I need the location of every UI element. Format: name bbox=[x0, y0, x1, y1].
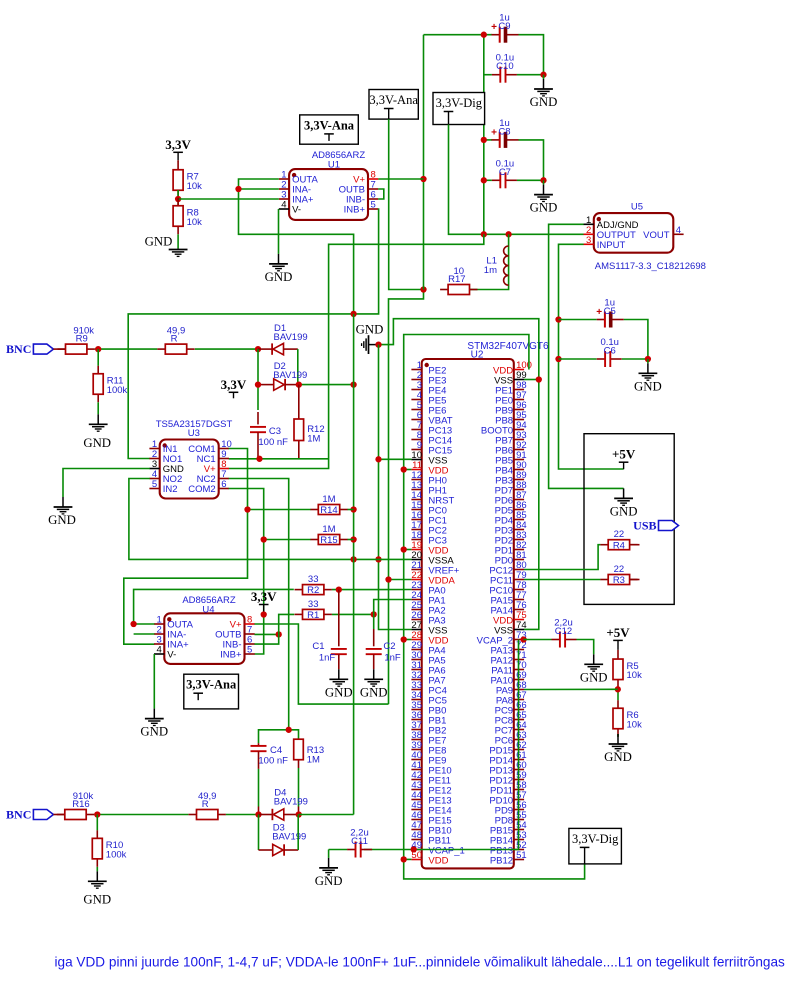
wire clamp left link bbox=[257, 349, 259, 410]
ground (left-pointing, VSS rail) bbox=[356, 323, 384, 354]
wire +5V to R5 bbox=[617, 650, 619, 651]
node VSS10 junction bbox=[375, 456, 381, 462]
wire D3 cathode bbox=[284, 849, 298, 851]
resistor R7 bbox=[173, 162, 202, 199]
svg-text:22: 22 bbox=[614, 529, 625, 540]
U3 labels bbox=[156, 419, 233, 439]
svg-text:3,3V: 3,3V bbox=[221, 377, 247, 392]
regulator U5 bbox=[594, 213, 674, 253]
node VDD pin19 bbox=[401, 546, 407, 552]
wire U5 ADJ/GND to USB-box GND bbox=[549, 224, 624, 488]
svg-text:GND: GND bbox=[356, 323, 384, 337]
node C6 left junction bbox=[555, 356, 561, 362]
svg-text:R15: R15 bbox=[320, 535, 337, 546]
wire U1 V+ to rail bbox=[378, 178, 423, 180]
svg-text:+5V: +5V bbox=[606, 625, 630, 640]
wire D3 anode bbox=[259, 849, 273, 851]
wire R7-R8 junction bbox=[177, 190, 179, 206]
wire Ana rail jog bbox=[389, 290, 424, 705]
wire D1 anode lead bbox=[284, 348, 298, 350]
wire U3 GND pin3 bbox=[63, 469, 150, 498]
svg-text:iga VDD pinni juurde 100nF, 1-: iga VDD pinni juurde 100nF, 1-4,7 uF; VD… bbox=[55, 955, 786, 970]
wire R8 to GND bbox=[177, 234, 179, 248]
wire U4 V- down bbox=[153, 654, 155, 709]
resistor R12 bbox=[294, 385, 325, 459]
wire C5 left lead bbox=[559, 319, 597, 321]
capacitor C5 bbox=[596, 298, 623, 328]
wire D1 cathode lead bbox=[258, 348, 272, 350]
node U4 pin1 junction bbox=[130, 621, 136, 627]
capacitor C10 bbox=[492, 53, 517, 83]
node R17 junction bbox=[420, 286, 426, 292]
svg-text:C6: C6 bbox=[604, 346, 616, 357]
wire C6 left bbox=[559, 358, 597, 360]
wire C11 row bbox=[329, 849, 348, 851]
node U4 OUTB junction bbox=[276, 631, 282, 637]
svg-text:GND: GND bbox=[265, 270, 293, 284]
connector USB bbox=[633, 519, 678, 533]
ground at C6 bbox=[634, 359, 662, 393]
wire C4/R13 top bbox=[259, 730, 289, 743]
capacitor C1 bbox=[312, 590, 346, 670]
svg-text:U4: U4 bbox=[202, 604, 214, 615]
node GND-left junction bbox=[375, 341, 381, 347]
wire U1 V- to ground bbox=[278, 209, 280, 254]
wire C2 node to PA1 bbox=[374, 600, 412, 630]
svg-text:R1: R1 bbox=[307, 610, 319, 621]
wire R9 to 49.9R bbox=[95, 348, 157, 350]
node R1/C2 junction bbox=[371, 611, 377, 617]
wire U1 INB+ down bbox=[128, 209, 378, 459]
svg-text:V-: V- bbox=[292, 205, 301, 216]
svg-text:51: 51 bbox=[516, 850, 527, 861]
node R9/R11 junction bbox=[95, 346, 101, 352]
svg-text:4: 4 bbox=[157, 645, 162, 656]
wire U1 OUTA feedback bbox=[239, 179, 354, 314]
svg-text:10k: 10k bbox=[187, 181, 203, 192]
U2 left pins 1-50 bbox=[411, 360, 464, 867]
svg-text:GND: GND bbox=[610, 504, 638, 518]
power flag 3,3V-Ana (boxed, mid) bbox=[369, 90, 418, 120]
svg-text:GND: GND bbox=[530, 201, 558, 215]
svg-text:C4: C4 bbox=[270, 745, 282, 756]
svg-text:BNC: BNC bbox=[6, 808, 31, 822]
U4 pins bbox=[154, 615, 255, 661]
wire C9 right to C10 right bbox=[518, 35, 543, 75]
power flag 3,3V-Ana (boxed, left) bbox=[300, 115, 359, 144]
note text bbox=[55, 955, 786, 970]
wire C6 right bbox=[622, 358, 648, 360]
wire C8 left bbox=[484, 139, 492, 141]
wire divider to U1 INA+ bbox=[178, 198, 279, 200]
svg-text:R3: R3 bbox=[613, 575, 625, 586]
svg-text:GND: GND bbox=[604, 750, 632, 764]
resistor R3 bbox=[600, 564, 637, 586]
svg-text:BNC: BNC bbox=[6, 342, 31, 356]
resistor R11 bbox=[93, 366, 127, 403]
wire 49.9R to D1 bbox=[195, 348, 258, 350]
svg-text:100k: 100k bbox=[106, 849, 127, 860]
svg-text:C12: C12 bbox=[555, 626, 572, 637]
ground at U4 V- bbox=[140, 709, 168, 739]
svg-text:3: 3 bbox=[586, 235, 591, 246]
svg-text:IN2: IN2 bbox=[163, 484, 178, 495]
wire C9/C10 left riser bbox=[483, 35, 485, 235]
wire U3 COM2 to U4 INB+ bbox=[229, 489, 264, 655]
svg-text:33: 33 bbox=[308, 599, 319, 610]
wire PC11 to R3 bbox=[524, 579, 600, 581]
wire D4 anode lead bbox=[284, 814, 299, 816]
power flag 3,3V near D2 bbox=[221, 377, 247, 399]
wire R13 top bbox=[289, 730, 299, 739]
wire C10 right bbox=[517, 74, 544, 76]
wire VDD pin28 bbox=[404, 639, 412, 641]
svg-text:6: 6 bbox=[221, 479, 226, 490]
node VDDA junction bbox=[385, 576, 391, 582]
resistor R17 bbox=[440, 266, 477, 295]
svg-text:+5V: +5V bbox=[612, 447, 636, 462]
wire R11 to GND bbox=[97, 402, 99, 414]
svg-text:R16: R16 bbox=[72, 799, 89, 810]
wire D2 cathode row bbox=[299, 384, 354, 386]
node R16/R10 junction bbox=[94, 811, 100, 817]
svg-text:1nF: 1nF bbox=[384, 652, 401, 663]
node VCAP_1 junction bbox=[411, 846, 417, 852]
node U1 V+ junction bbox=[420, 176, 426, 182]
wire R14 right bbox=[348, 509, 354, 511]
svg-text:3,3V-Dig: 3,3V-Dig bbox=[572, 832, 619, 846]
diode D3 bbox=[272, 823, 306, 856]
ground at R11 bbox=[83, 414, 111, 450]
node VDD pin28 bbox=[401, 636, 407, 642]
svg-text:10k: 10k bbox=[627, 719, 643, 730]
svg-text:R2: R2 bbox=[307, 585, 319, 596]
svg-text:GND: GND bbox=[48, 513, 76, 527]
wire VDD pin19 bbox=[404, 549, 412, 551]
svg-text:+: + bbox=[596, 307, 602, 318]
wire BNC1 to R9 bbox=[53, 348, 65, 350]
svg-text:VDD: VDD bbox=[428, 856, 448, 867]
svg-text:GND: GND bbox=[325, 685, 353, 699]
svg-text:BAV199: BAV199 bbox=[273, 370, 307, 381]
wire U5 INPUT +5V riser bbox=[559, 244, 624, 469]
node VSSA GND junction bbox=[375, 556, 381, 562]
node Dig/C-riser junction bbox=[481, 231, 487, 237]
svg-text:GND: GND bbox=[140, 725, 168, 739]
svg-text:U5: U5 bbox=[631, 202, 643, 213]
svg-text:33: 33 bbox=[308, 574, 319, 585]
op-amp U1 bbox=[289, 169, 368, 220]
svg-text:GND: GND bbox=[315, 874, 343, 888]
svg-text:INB+: INB+ bbox=[220, 650, 242, 661]
svg-text:3,3V-Dig: 3,3V-Dig bbox=[436, 96, 483, 110]
wire VSS pin10 bbox=[379, 458, 412, 460]
wire mid rail bbox=[353, 314, 355, 815]
svg-text:C9: C9 bbox=[498, 21, 510, 32]
node R15 right junction bbox=[350, 536, 356, 542]
svg-text:INB+: INB+ bbox=[344, 205, 366, 216]
ground at R10 bbox=[83, 871, 111, 906]
node clamp bottom left junction bbox=[255, 811, 261, 817]
svg-text:C10: C10 bbox=[496, 61, 513, 72]
svg-text:C11: C11 bbox=[351, 836, 368, 847]
svg-text:GND: GND bbox=[634, 379, 662, 393]
capacitor C2 bbox=[366, 629, 401, 669]
svg-text:+: + bbox=[491, 22, 497, 33]
capacitor C4 bbox=[251, 743, 289, 814]
node C8 left junction bbox=[481, 137, 487, 143]
svg-text:1nF: 1nF bbox=[319, 652, 336, 663]
svg-text:+: + bbox=[491, 127, 497, 138]
capacitor C3 bbox=[250, 412, 288, 459]
node D2 rail junction bbox=[350, 381, 356, 387]
ground at C7 bbox=[530, 180, 558, 214]
wire U3 COM1 to U4 INA+ bbox=[124, 449, 248, 645]
svg-text:1m: 1m bbox=[484, 265, 497, 276]
wire GND rail bbox=[379, 345, 412, 630]
svg-text:C1: C1 bbox=[312, 641, 324, 652]
wire C8 right to C7 right bbox=[518, 140, 543, 180]
ground at C2 bbox=[360, 669, 388, 699]
wire R4 stub right bbox=[630, 544, 640, 546]
svg-text:GND: GND bbox=[580, 670, 608, 684]
resistor R1 bbox=[295, 599, 332, 621]
node 3,3V flag junction bbox=[261, 611, 267, 617]
svg-text:3,3V-Ana: 3,3V-Ana bbox=[369, 93, 418, 107]
resistor R8 bbox=[173, 198, 202, 235]
svg-text:5: 5 bbox=[371, 200, 376, 211]
resistor R2 bbox=[295, 574, 332, 596]
wire R15 left bbox=[264, 539, 311, 541]
inductor L1 bbox=[484, 246, 509, 285]
resistor R6 bbox=[613, 700, 642, 737]
wire VCAP_2 to C12 bbox=[524, 639, 552, 641]
node C3 bottom junction bbox=[256, 456, 262, 462]
svg-text:U2: U2 bbox=[471, 350, 484, 361]
node VCAP_2 junction bbox=[520, 636, 526, 642]
wire U3 NO2 to VSSA row bbox=[129, 479, 412, 560]
svg-text:1M: 1M bbox=[322, 524, 335, 535]
wire D4 cathode lead bbox=[259, 814, 273, 816]
wire R15 right bbox=[348, 539, 354, 541]
svg-text:R: R bbox=[171, 334, 178, 345]
wire R1 to C2 node bbox=[332, 613, 374, 615]
node U1 pin2 junction bbox=[235, 186, 241, 192]
U2 labels bbox=[467, 341, 549, 361]
wire D1 to D2 right bbox=[297, 349, 299, 385]
svg-text:BAV199: BAV199 bbox=[272, 832, 306, 843]
svg-text:5: 5 bbox=[152, 479, 157, 490]
wire R6 to GND bbox=[617, 734, 619, 737]
svg-text:3,3V: 3,3V bbox=[251, 589, 277, 604]
node rail353 top junction bbox=[350, 311, 356, 317]
node VDD pin50 bbox=[401, 856, 407, 862]
wire L1 branch bbox=[469, 234, 509, 289]
wire VSS riser bbox=[379, 319, 539, 630]
wire R5 to R6 bbox=[617, 688, 619, 701]
wire U4 OUTA loop to R2 bbox=[134, 589, 294, 624]
resistor R13 bbox=[294, 739, 324, 815]
svg-text:BAV199: BAV199 bbox=[274, 797, 308, 808]
svg-text:5: 5 bbox=[247, 645, 252, 656]
wire C5 right bbox=[624, 320, 648, 360]
analog switch U3 bbox=[160, 440, 219, 499]
U5 labels bbox=[595, 202, 706, 272]
wire R11 top bbox=[97, 349, 99, 366]
svg-text:R9: R9 bbox=[76, 334, 88, 345]
wire U4 INA- to loop bbox=[134, 633, 155, 635]
U1 labels bbox=[312, 150, 366, 171]
connector BNC (bottom) bbox=[6, 808, 53, 822]
node VDD pin11 bbox=[401, 466, 407, 472]
node C9 left junction bbox=[481, 32, 487, 38]
svg-text:U3: U3 bbox=[188, 428, 200, 439]
wire C7 row bbox=[484, 179, 492, 181]
power flag 3,3V-Ana (boxed, under U4) bbox=[184, 674, 239, 709]
wire C12 right bbox=[577, 640, 594, 655]
wire C11 to VCAP pins bbox=[364, 640, 519, 850]
node VSS99 junction bbox=[536, 376, 542, 382]
svg-text:AMS1117-3.3_C18212698: AMS1117-3.3_C18212698 bbox=[595, 261, 706, 272]
ground at R8 bbox=[145, 235, 188, 257]
power flag +5V at R5 bbox=[606, 625, 630, 650]
wire R16 to 49.9R bbox=[94, 814, 188, 816]
node R7/R8 junction bbox=[175, 196, 181, 202]
wire Dig to U3 V+ branch bbox=[229, 234, 484, 468]
svg-text:R4: R4 bbox=[613, 540, 625, 551]
svg-text:R: R bbox=[202, 799, 209, 810]
resistor R4 bbox=[600, 529, 637, 551]
wire R10 to GND bbox=[96, 867, 98, 871]
wire D3 left loop bbox=[258, 815, 260, 851]
svg-text:PB12: PB12 bbox=[490, 856, 513, 867]
wire VDDA pin22 bbox=[389, 579, 412, 581]
node R14 right junction bbox=[350, 506, 356, 512]
resistor R14 bbox=[310, 494, 347, 516]
power flag 3,3V near U4 bbox=[251, 589, 277, 615]
wire BNC2 to R16 bbox=[53, 814, 64, 816]
ground at C11 bbox=[315, 858, 343, 888]
svg-text:GND: GND bbox=[83, 436, 111, 450]
ground at U1 V- bbox=[265, 254, 293, 284]
wire C11 left down bbox=[328, 850, 330, 858]
wire R3 stub right bbox=[630, 579, 640, 581]
svg-text:GND: GND bbox=[360, 685, 388, 699]
diode D4 bbox=[272, 788, 308, 821]
svg-text:1M: 1M bbox=[307, 754, 320, 765]
svg-text:R14: R14 bbox=[320, 505, 337, 516]
node Dig/L1 junction bbox=[505, 231, 511, 237]
svg-text:C7: C7 bbox=[499, 167, 511, 178]
power flag 3,3V-Dig (boxed, top) bbox=[433, 93, 485, 125]
svg-text:GND: GND bbox=[145, 235, 173, 249]
svg-text:22: 22 bbox=[614, 564, 625, 575]
svg-text:GND: GND bbox=[530, 95, 558, 109]
power flag 3,3V at R7 bbox=[165, 137, 191, 161]
wire VDD pin50 bbox=[404, 858, 412, 860]
wire U3 NC2 to C4/R13 bbox=[229, 479, 289, 730]
wire D2 cathode lead bbox=[285, 384, 299, 386]
wire Ana rail upper bbox=[389, 119, 424, 289]
wire C10 row bbox=[484, 74, 492, 76]
node clamp bottom right junction bbox=[296, 811, 302, 817]
wire VDD pin11 bbox=[404, 469, 412, 471]
power flag +5V in USB box bbox=[612, 447, 636, 470]
wire 3,3V-Dig net bbox=[449, 125, 584, 235]
U2 right pins 100-51 bbox=[477, 360, 532, 867]
node D2 anode junction bbox=[255, 381, 261, 387]
wire 3.3V-Dig rail to C9 bbox=[424, 34, 493, 36]
wire D2 anode bbox=[258, 384, 274, 386]
capacitor C9 bbox=[491, 13, 518, 43]
svg-text:100 nF: 100 nF bbox=[258, 437, 288, 448]
U5 pins bbox=[584, 215, 684, 251]
node C7 left junction bbox=[481, 177, 487, 183]
svg-text:10k: 10k bbox=[187, 217, 203, 228]
wire U4 V+ to Ana bbox=[255, 624, 389, 704]
svg-text:C3: C3 bbox=[269, 426, 281, 437]
resistor R16 bbox=[57, 791, 94, 820]
node VSSA rail junction bbox=[350, 556, 356, 562]
svg-text:VOUT: VOUT bbox=[643, 230, 670, 241]
svg-text:GND: GND bbox=[83, 892, 111, 906]
capacitor C11 bbox=[347, 828, 372, 858]
wire 3,3V to R7 bbox=[177, 160, 179, 162]
resistor R5 bbox=[613, 651, 642, 688]
svg-text:INPUT: INPUT bbox=[597, 240, 626, 251]
ground at U3 bbox=[48, 497, 76, 527]
svg-text:C8: C8 bbox=[498, 126, 510, 137]
wire U1 INA- to feedback bbox=[239, 188, 279, 190]
wire VSS pin99 bbox=[524, 379, 539, 381]
capacitor C6 bbox=[597, 337, 622, 367]
node clamp top junction bbox=[255, 346, 261, 352]
U3 pins bbox=[149, 439, 231, 495]
U1 pins bbox=[279, 170, 379, 216]
wire C7 right bbox=[517, 179, 544, 181]
U4 labels bbox=[182, 595, 236, 616]
ground at C1 bbox=[325, 669, 353, 699]
node R2/C1 junction bbox=[336, 586, 342, 592]
diode D1 bbox=[272, 323, 308, 355]
wire PA9 to divider bbox=[524, 688, 618, 690]
wire V+ rail C9 to R17 bbox=[423, 35, 425, 290]
capacitor C8 bbox=[491, 118, 518, 148]
wire VDD rail bbox=[404, 335, 585, 879]
svg-text:100k: 100k bbox=[107, 385, 128, 396]
connector BNC (top) bbox=[6, 342, 53, 356]
microcontroller U2 bbox=[422, 359, 514, 868]
capacitor C7 bbox=[492, 158, 517, 188]
resistor R15 bbox=[310, 524, 347, 546]
wire R1 riser bbox=[255, 614, 295, 644]
svg-text:3,3V: 3,3V bbox=[165, 137, 191, 152]
svg-text:COM2: COM2 bbox=[188, 484, 215, 495]
svg-text:C5: C5 bbox=[604, 306, 616, 317]
wire R14 left bbox=[248, 509, 311, 511]
node C6 right junction bbox=[645, 356, 651, 362]
wire R10 top bbox=[96, 815, 98, 831]
wire 49.9R to D4 bbox=[226, 814, 259, 816]
power flag 3,3V-Dig (boxed, bottom) bbox=[569, 828, 622, 864]
wire D3 right loop bbox=[297, 815, 299, 851]
resistor R10 bbox=[92, 830, 126, 867]
svg-text:USB: USB bbox=[633, 519, 656, 533]
node R14/COM1 junction bbox=[244, 506, 250, 512]
op-amp U4 bbox=[164, 613, 244, 664]
wire clamp to mid rail bbox=[299, 814, 354, 816]
wire C3/R12 bottom row bbox=[229, 458, 329, 460]
